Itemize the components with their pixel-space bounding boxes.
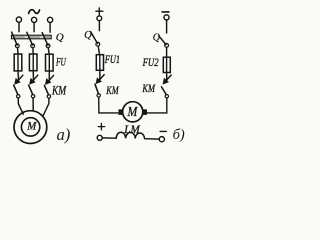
wire FU2 to KM [166,73,168,81]
inductor LM coil [116,132,144,138]
switch Q blade pole 3 [42,33,48,46]
svg-text:КМ: КМ [51,83,67,98]
svg-text:FU1: FU1 [104,54,120,66]
switch Q pivot pole 1 [15,44,19,48]
wire KM1 to motor [18,98,23,114]
wire KM to motor (right) [147,98,167,113]
minus terminal (top) [162,11,169,13]
terminal circle bottom right [159,137,164,142]
wire switch to FU1 [98,46,99,55]
terminal circle bottom left [97,135,102,140]
switch blade (left branch) [91,32,98,44]
wire L3 to switch [49,23,51,33]
contactor contact KM pole 1 [14,75,23,98]
terminal circle plus [97,16,102,21]
wire minus to switch [166,20,168,33]
terminal circle minus [164,15,169,20]
motor M (three-phase) inner [21,118,39,136]
svg-text:М: М [26,119,37,133]
contactor contact KM pole 2 [29,75,38,98]
fuse FU1 [96,55,103,71]
plus terminal (bottom) [98,123,105,129]
svg-text:FU2: FU2 [142,57,159,69]
wire KM3 to motor [43,98,49,115]
switch Q blade pole 1 [12,32,18,45]
contactor contact KM (left branch) [95,75,104,98]
fuse FU pole 3 [46,54,54,71]
wire FU1 to KM [99,70,101,80]
wire fuse3 to KM3 [48,71,50,81]
motor brush right [143,110,147,115]
svg-text:б): б) [173,127,185,143]
svg-text:LM: LM [123,122,140,136]
minus terminal (bottom) [160,130,166,132]
fuse FU pole 2 [29,54,37,71]
wire pole2 to fuse [32,48,34,54]
switch Q blade pole 2 [27,32,33,45]
terminal L1 [16,17,21,22]
fuse FU2 [163,57,170,72]
motor M (DC) circle [123,102,143,122]
wire inductor to terminal [145,138,160,140]
svg-text:а): а) [57,125,71,144]
wire fuse2 to KM2 [32,71,34,81]
terminal L2 [31,17,36,22]
fuse FU pole 1 [14,54,22,71]
wire pole3 to fuse [48,48,49,54]
switch pivot (left branch) [96,42,100,46]
AC supply tilde symbol [29,10,40,14]
plus terminal (top) [96,8,103,15]
svg-text:M: M [127,105,139,120]
contactor contact KM (right branch) [162,75,172,98]
wire switch to FU2 [166,47,168,57]
svg-text:КМ: КМ [105,85,119,97]
switch pivot (right branch) [165,44,169,48]
motor brush left [119,110,123,115]
svg-text:Q: Q [153,33,161,44]
switch blade (right branch) [159,36,166,45]
switch Q pivot pole 3 [46,44,50,48]
wire KM to motor (left) [99,97,119,113]
wire plus to switch [98,21,100,31]
switch Q linkage bar [11,35,51,39]
svg-text:КМ: КМ [142,83,156,95]
svg-text:FU: FU [55,54,66,68]
wire pole1 to fuse [17,48,20,54]
terminal L3 [48,17,53,22]
motor M (three-phase) outer [14,111,47,144]
svg-text:Q: Q [56,32,64,44]
wire to inductor [102,137,116,139]
wire KM2 to motor [32,98,34,111]
wire L2 to switch [33,23,35,32]
switch Q pivot pole 2 [31,44,35,48]
wire fuse1 to KM1 [17,71,20,81]
contactor contact KM pole 3 [44,75,53,98]
wire L1 to switch [18,22,20,32]
